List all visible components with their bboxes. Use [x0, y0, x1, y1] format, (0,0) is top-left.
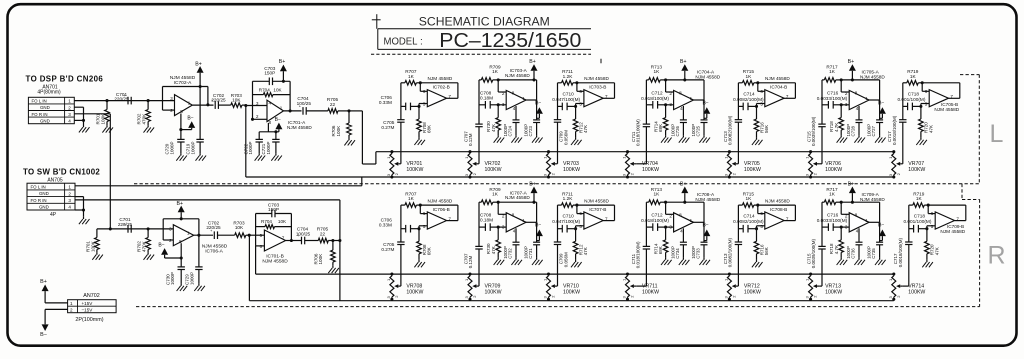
- title block bottom dashed line: [371, 53, 591, 55]
- svg-text:PC–1235/1650: PC–1235/1650: [439, 29, 581, 52]
- svg-text:IC706-A: IC706-A: [205, 249, 223, 255]
- svg-text:4: 4: [513, 106, 516, 111]
- ground under C721: [275, 153, 277, 155]
- resistor R706 100K (R channel): [313, 241, 335, 266]
- capacitor C718 0.001/100(M): [898, 91, 926, 110]
- svg-text:C710: C710: [563, 91, 575, 96]
- svg-text:C734: C734: [675, 248, 680, 259]
- svg-text:NJM 4558D: NJM 4558D: [765, 76, 790, 81]
- svg-text:1K: 1K: [916, 196, 923, 201]
- op-amp IC703-B feedback box: [577, 83, 615, 99]
- op-amp IC707-A feedback box: [498, 202, 536, 222]
- svg-text:2: 2: [70, 308, 73, 313]
- capacitor C713 0.0082/100(M): [723, 83, 742, 164]
- wire L bottom rail jog to CN1002 pin1: [75, 177, 362, 186]
- resistor R712 47K: [573, 106, 588, 137]
- svg-text:3: 3: [68, 112, 71, 117]
- ground under R714: [665, 135, 667, 137]
- potentiometer VR713 100KW: [805, 272, 843, 300]
- op-amp IC702-A feedback box: [163, 87, 208, 111]
- connector AN702: [68, 300, 117, 313]
- wire CN206 pins 2 and 4 to ground: [74, 107, 85, 125]
- potentiometer VR706 100KW: [805, 150, 843, 178]
- svg-text:0.33M: 0.33M: [379, 100, 392, 105]
- resistor R717 1K (R channel): [822, 187, 841, 205]
- svg-text:220/25: 220/25: [114, 97, 129, 102]
- svg-text:8: 8: [855, 90, 858, 95]
- svg-text:4.7K: 4.7K: [834, 123, 839, 132]
- capacitor C734 1000P: [670, 228, 687, 258]
- svg-text:100K: 100K: [336, 125, 341, 137]
- ground under C735: [879, 258, 881, 260]
- op-amp IC709-A feedback box: [841, 202, 879, 222]
- svg-text:0.12M: 0.12M: [468, 133, 473, 146]
- node R719 feedback: [921, 81, 924, 84]
- resistor R702 470K (R channel): [137, 229, 151, 253]
- L channel top rail: [376, 151, 894, 153]
- wire input node to IC701-B pin5: [249, 234, 264, 236]
- wire IC703-B pin5: [576, 104, 584, 107]
- capacitor C709 0.056M: [554, 83, 569, 164]
- capacitor C720 1000P: [165, 139, 185, 154]
- resistor R704 10K (R channel): [256, 214, 292, 241]
- svg-text:C712: C712: [651, 90, 663, 95]
- svg-text:AN705: AN705: [47, 178, 63, 184]
- svg-text:0.0018/100(M): 0.0018/100(M): [892, 115, 897, 145]
- op-amp IC705-B feedback box: [922, 83, 960, 99]
- potentiometer VR703 100KW: [543, 150, 581, 178]
- node R715 feedback (R channel): [756, 204, 759, 207]
- node R EQ drive riser junction: [338, 239, 341, 242]
- svg-text:1.2K: 1.2K: [563, 74, 574, 79]
- svg-text:FO L IN: FO L IN: [31, 185, 46, 190]
- node R711 feedback (R channel): [575, 204, 578, 207]
- node R input junction R702: [147, 227, 150, 230]
- B+ supply arrow IC702-A: [195, 61, 203, 88]
- wire IC707-B pin5 (R channel): [576, 226, 584, 229]
- B+ supply arrow IC703-A: [529, 59, 537, 81]
- capacitor C730 1000P: [165, 267, 185, 285]
- svg-text:10K: 10K: [278, 219, 287, 224]
- svg-text:NJM 4558D: NJM 4558D: [940, 229, 965, 234]
- resistor R703 10K: [231, 93, 246, 107]
- B+ supply arrow IC706-A: [177, 201, 185, 220]
- svg-text:100KW: 100KW: [406, 289, 423, 295]
- svg-text:22: 22: [320, 231, 326, 236]
- ground under C734: [682, 258, 684, 260]
- resistor R717 1K: [822, 65, 841, 83]
- capacitor C731 1000P: [524, 222, 541, 258]
- svg-text:AN702: AN702: [83, 293, 99, 299]
- op-amp IC705-A labels: [860, 70, 885, 80]
- model label MODEL : PC-1235/1650: [384, 29, 582, 52]
- svg-text:NJM 4558D: NJM 4558D: [860, 75, 885, 80]
- svg-text:4: 4: [680, 106, 683, 111]
- B- supply arrow IC704-A: [702, 100, 710, 118]
- node R717 feedback (R channel): [840, 201, 843, 204]
- op-amp IC708-B feedback box: [758, 205, 796, 221]
- svg-text:TO DSP B'D CN206: TO DSP B'D CN206: [26, 75, 104, 84]
- ground under R720 (R channel): [926, 260, 928, 262]
- op-amp IC709-B labels: [940, 224, 965, 234]
- svg-text:IC702-A: IC702-A: [174, 80, 192, 86]
- svg-text:6: 6: [423, 211, 426, 216]
- R channel top rail: [256, 246, 894, 274]
- tick mark right of title block: [600, 59, 602, 64]
- wire CN1002 pins 2 and 4 to ground: [75, 197, 85, 217]
- resistor R701 100K: [96, 101, 110, 126]
- capacitor C732 1000P: [503, 228, 520, 258]
- ground under R702: [147, 125, 149, 127]
- svg-text:0.018/100(M): 0.018/100(M): [636, 241, 641, 268]
- resistor R715 1K (R channel): [738, 192, 757, 208]
- svg-text:1: 1: [68, 99, 71, 104]
- B+ supply arrow IC708-A: [680, 181, 688, 203]
- node L input junction R702: [147, 99, 150, 102]
- svg-text:B+: B+: [529, 181, 536, 187]
- svg-text:0.0082/100(M): 0.0082/100(M): [733, 219, 764, 224]
- ground under C729: [198, 284, 200, 286]
- svg-text:2P(100mm): 2P(100mm): [75, 317, 103, 323]
- svg-text:0.0039/100(M): 0.0039/100(M): [811, 116, 816, 146]
- svg-text:7: 7: [282, 236, 285, 241]
- capacitor C708 0.18M: [479, 90, 506, 108]
- capacitor C718 0.001/100(M) (R channel): [904, 214, 932, 233]
- connector AN705: [27, 183, 75, 210]
- capacitor C701 220/25: [114, 92, 131, 104]
- ground under C731: [536, 258, 538, 260]
- op-amp IC702-A: [170, 95, 192, 116]
- svg-text:0.001/100(M): 0.001/100(M): [904, 219, 932, 224]
- B- power arrow: [40, 309, 67, 337]
- resistor R711 1.2K (R channel): [558, 192, 577, 208]
- resistor R714 68K: [653, 105, 668, 136]
- svg-text:2: 2: [68, 105, 71, 110]
- svg-text:C712: C712: [651, 213, 663, 218]
- svg-text:2: 2: [669, 91, 672, 96]
- B+ supply arrow IC704-A: [680, 59, 688, 81]
- ground under R720: [920, 138, 922, 140]
- op-amp IC703-A: [502, 90, 526, 111]
- svg-text:NJM 4558D: NJM 4558D: [584, 199, 609, 204]
- B- supply arrow IC706-A: [158, 242, 182, 259]
- svg-text:C723: C723: [528, 125, 533, 136]
- svg-text:0.18M: 0.18M: [480, 95, 493, 100]
- capacitor C711 0.018/100(M): [631, 80, 650, 164]
- svg-text:1: 1: [522, 218, 525, 223]
- op-amp IC701-B: [260, 230, 286, 251]
- ground under C724: [515, 135, 517, 137]
- svg-text:MODEL: MODEL: [384, 37, 418, 48]
- svg-text:1K: 1K: [654, 69, 661, 74]
- B- supply arrow IC701-A: [259, 117, 282, 132]
- op-amp IC704-A feedback box: [666, 80, 704, 100]
- capacitor C711 0.018/100(M) (R channel): [631, 202, 650, 286]
- svg-text:B+: B+: [848, 59, 855, 65]
- op-amp IC707-A labels: [505, 190, 530, 200]
- resistor R715 1K: [738, 69, 757, 85]
- resistor R713 1K (R channel): [646, 187, 665, 205]
- op-amp IC705-B: [925, 89, 954, 107]
- potentiometer VR707 100KW: [888, 150, 926, 178]
- ground under C733: [703, 258, 705, 260]
- resistor R702 470K: [137, 101, 151, 126]
- svg-text:C735: C735: [871, 248, 876, 259]
- wire IC706-A pin8 to decoupling: [180, 243, 182, 267]
- op-amp IC707-A: [502, 213, 526, 234]
- op-amp IC706-A feedback box: [163, 219, 199, 240]
- B+ supply arrow IC709-A: [848, 181, 856, 203]
- capacitor C715 0.0039/100(M): [806, 80, 825, 164]
- svg-text:C710: C710: [563, 214, 575, 219]
- ground under R712 (R channel): [575, 260, 577, 262]
- op-amp IC708-B: [760, 211, 789, 229]
- potentiometer VR709 100KW: [464, 272, 502, 300]
- wire IC702-A output: [192, 103, 213, 106]
- svg-text:6: 6: [760, 211, 763, 216]
- wire gyrator to wiper: [737, 163, 739, 165]
- capacitor C705 0.27M: [381, 83, 404, 164]
- svg-text:IC702-B: IC702-B: [433, 85, 450, 90]
- op-amp IC702-B labels: [428, 76, 453, 90]
- capacitor C722 1000P: [243, 132, 263, 155]
- svg-text:IC703-B: IC703-B: [589, 85, 606, 90]
- ground under C736: [858, 258, 860, 260]
- wire gyrator to wiper: [636, 163, 646, 165]
- svg-text:100K: 100K: [100, 113, 105, 125]
- resistor R701 100K (R channel): [86, 229, 100, 253]
- svg-text:NJM 4558D: NJM 4558D: [765, 199, 790, 204]
- ground under R730 (R channel): [497, 258, 499, 260]
- svg-text:47K: 47K: [583, 247, 588, 255]
- wire gyrator to wiper (R channel): [556, 285, 558, 287]
- svg-text:10K: 10K: [235, 225, 244, 230]
- svg-text:470K: 470K: [142, 113, 147, 125]
- L channel bottom rail: [246, 176, 894, 178]
- svg-text:47K: 47K: [491, 246, 496, 254]
- svg-text:1000P: 1000P: [170, 141, 175, 154]
- capacitor C724 1000P: [503, 106, 520, 137]
- resistor R713 1K: [646, 65, 665, 83]
- svg-text:2: 2: [68, 191, 71, 196]
- wire gyrator to wiper: [902, 163, 904, 165]
- svg-text:R704: R704: [259, 87, 270, 92]
- svg-text:0.0082/100(M): 0.0082/100(M): [728, 115, 733, 145]
- node R709 feedback (R channel): [497, 201, 500, 204]
- svg-text:47K: 47K: [491, 124, 496, 132]
- resistor R708 68K: [417, 106, 432, 137]
- svg-text:1: 1: [280, 105, 283, 110]
- svg-text:68K: 68K: [427, 125, 432, 133]
- svg-text:0.018/100(M): 0.018/100(M): [636, 119, 641, 146]
- svg-text:NJM 4558D: NJM 4558D: [287, 125, 312, 130]
- node L input junction R701: [105, 99, 108, 102]
- svg-text:B+: B+: [177, 201, 184, 207]
- wire CN206 pin3 to R input line: [97, 228, 173, 230]
- op-amp IC705-B labels: [934, 102, 959, 112]
- op-amp IC706-B: [423, 211, 452, 229]
- ground under C725: [703, 135, 705, 137]
- B- supply arrow IC708-A: [702, 223, 710, 241]
- op-amp IC706-B labels: [428, 199, 453, 213]
- svg-text:C733: C733: [696, 248, 701, 259]
- op-amp IC707-B: [579, 211, 608, 229]
- svg-text:−15V: −15V: [82, 308, 94, 313]
- svg-text:100KW: 100KW: [744, 289, 761, 295]
- wire input node to IC701-A pin3: [246, 105, 267, 107]
- ground under C730: [180, 284, 182, 286]
- capacitor C710 0.047/100(M) (R channel): [552, 214, 580, 233]
- op-amp IC703-A feedback box: [498, 80, 536, 100]
- resistor R711 1.2K: [558, 69, 577, 85]
- op-amp IC707-B feedback box: [577, 205, 615, 221]
- op-amp IC703-B labels: [584, 76, 609, 90]
- svg-text:100KW: 100KW: [406, 167, 423, 173]
- ground under R714 (R channel): [665, 258, 667, 260]
- svg-text:6: 6: [931, 211, 934, 216]
- svg-text:+15V: +15V: [82, 301, 94, 306]
- wire IC701-A pin2: [251, 81, 267, 121]
- wire B+ rail to C719: [199, 87, 201, 140]
- capacitor C729 1000P: [185, 235, 203, 285]
- ground under CN206: [83, 125, 85, 127]
- svg-text:10K: 10K: [232, 98, 241, 103]
- wire gyrator to wiper (R channel): [903, 285, 909, 287]
- svg-text:1: 1: [522, 96, 525, 101]
- svg-text:B−: B−: [158, 242, 164, 248]
- svg-text:100K: 100K: [318, 253, 323, 265]
- svg-text:8: 8: [512, 90, 515, 95]
- resistor R720 47K (R channel): [925, 229, 940, 260]
- op-amp IC709-B feedback box: [928, 205, 966, 221]
- wire gyrator to wiper (R channel): [819, 285, 822, 287]
- svg-text:0.047/100(M): 0.047/100(M): [552, 219, 580, 224]
- svg-text:1: 1: [690, 96, 693, 101]
- node R719 feedback (R channel): [927, 204, 930, 207]
- svg-text:C714: C714: [743, 91, 755, 96]
- svg-text:7: 7: [786, 216, 789, 221]
- wire IC701-B output: [286, 239, 302, 242]
- wire IC705-B pin5: [921, 104, 929, 107]
- node R713 feedback: [664, 78, 667, 81]
- svg-text:C716: C716: [827, 213, 839, 218]
- svg-text:NJM 4558D: NJM 4558D: [428, 199, 453, 204]
- capacitor C713 0.0082/100(M) (R channel): [723, 205, 742, 286]
- capacitor C723 1000P: [524, 100, 541, 137]
- svg-text:C726: C726: [675, 125, 680, 136]
- op-amp IC704-B: [760, 89, 789, 107]
- node R711 feedback: [575, 81, 578, 84]
- svg-text:2: 2: [502, 213, 505, 218]
- B- supply arrow IC707-A: [535, 223, 543, 241]
- wire IC704-B pin5: [757, 104, 765, 107]
- resistor R709 1K: [479, 65, 501, 83]
- node R709 feedback: [497, 78, 500, 81]
- svg-text:1.2K: 1.2K: [563, 196, 574, 201]
- resistor R709 1K (R channel): [479, 187, 501, 205]
- svg-text:47K: 47K: [583, 125, 588, 133]
- title block lines: [372, 14, 591, 49]
- svg-text:1K: 1K: [408, 74, 415, 79]
- svg-text:0.27M: 0.27M: [381, 125, 394, 130]
- svg-text:SCHEMATIC DIAGRAM: SCHEMATIC DIAGRAM: [419, 15, 550, 29]
- svg-text:GND: GND: [39, 191, 49, 196]
- svg-text:0.33M: 0.33M: [379, 223, 392, 228]
- svg-text:150P: 150P: [264, 71, 275, 76]
- R channel dashed box: [136, 184, 980, 307]
- resistor R730 47K (R channel): [486, 227, 501, 258]
- svg-text:10K: 10K: [273, 87, 282, 92]
- svg-text:NJM 4558D: NJM 4558D: [860, 197, 885, 202]
- capacitor C701 220/25 (R channel): [118, 217, 133, 233]
- svg-text:FO R IN: FO R IN: [32, 112, 48, 117]
- ground under R701: [106, 125, 108, 127]
- capacitor C717 0.0018/100(M): [887, 83, 906, 164]
- svg-text:NJM 4558D: NJM 4558D: [262, 259, 288, 265]
- capacitor C703 150P (R channel): [256, 210, 292, 218]
- op-amp IC704-A: [669, 90, 693, 111]
- L channel dashed box: [960, 75, 979, 184]
- ground under CN1002: [83, 217, 85, 219]
- svg-text:100KW: 100KW: [485, 167, 502, 173]
- svg-text:0.12M: 0.12M: [468, 256, 473, 269]
- svg-text:6: 6: [579, 89, 582, 94]
- svg-text:47K: 47K: [929, 125, 934, 133]
- capacitor C721 1000P: [261, 130, 280, 154]
- svg-text:4: 4: [856, 106, 859, 111]
- resistor R705 22 (R channel): [317, 227, 340, 243]
- svg-text:1: 1: [68, 185, 71, 190]
- svg-text:0.001/100(M): 0.001/100(M): [898, 97, 926, 102]
- ground under R716: [756, 138, 758, 140]
- svg-text:6: 6: [760, 89, 763, 94]
- resistor R719 1K (R channel): [909, 192, 928, 208]
- node R713 feedback (R channel): [664, 201, 667, 204]
- op-amp IC708-B labels: [765, 199, 790, 213]
- svg-text:C718: C718: [908, 91, 920, 96]
- wire IC701-B pin6 and ladder riser: [256, 214, 265, 246]
- svg-text:4: 4: [68, 119, 71, 124]
- svg-text:150P: 150P: [268, 207, 279, 212]
- B- supply arrow IC705-A: [878, 100, 886, 118]
- svg-text:1K: 1K: [746, 74, 753, 79]
- svg-text:B+: B+: [848, 181, 855, 187]
- ground under C726: [682, 135, 684, 137]
- svg-text:4: 4: [68, 205, 71, 210]
- node L EQ drive: [347, 109, 350, 112]
- R channel bottom rail: [249, 235, 893, 301]
- op-amp IC702-B feedback box: [420, 83, 458, 99]
- svg-text:0.27M: 0.27M: [381, 247, 394, 252]
- ground under R718: [840, 135, 842, 137]
- ground under R706: [348, 138, 350, 140]
- op-amp IC702-A labels: [170, 75, 196, 86]
- svg-text:4: 4: [513, 229, 516, 234]
- resistor R706 100K: [331, 111, 351, 138]
- svg-text:NJM 4558D: NJM 4558D: [584, 76, 609, 81]
- svg-text:C736: C736: [851, 248, 856, 259]
- ground under C723: [536, 135, 538, 137]
- potentiometer VR710 100KW: [543, 272, 581, 300]
- resistor R704 10K: [253, 81, 291, 111]
- capacitor C710 0.047/100(M): [552, 91, 580, 110]
- svg-text:4: 4: [856, 229, 859, 234]
- op-amp IC708-A: [669, 213, 693, 234]
- svg-text:NJM 4558D: NJM 4558D: [428, 76, 453, 81]
- svg-text:1K: 1K: [408, 196, 415, 201]
- capacitor C703 150P: [253, 78, 291, 86]
- svg-text:7: 7: [448, 94, 451, 99]
